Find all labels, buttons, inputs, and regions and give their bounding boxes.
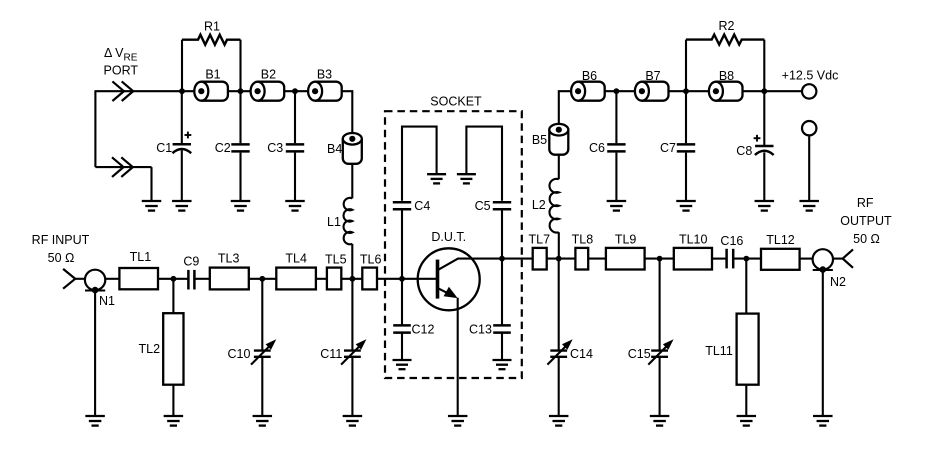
svg-text:C14: C14 <box>570 347 593 361</box>
connector N1 <box>85 270 105 290</box>
svg-text:C9: C9 <box>183 254 199 268</box>
transmission line TL8 <box>575 248 588 270</box>
ferrite bead B7 <box>642 82 669 101</box>
wire: C10 to ground <box>261 357 263 415</box>
transmission line TL3 <box>210 268 249 290</box>
wire: TL5 to TL6 <box>341 278 362 280</box>
wire: B5 riser and corner to B6 <box>559 91 571 124</box>
ground (N1) <box>85 415 105 417</box>
capacitor C8 wire upper <box>763 91 765 145</box>
wire: R1 left leg <box>181 40 183 91</box>
svg-text:C2: C2 <box>215 141 231 155</box>
svg-text:TL1: TL1 <box>130 250 152 264</box>
transmission line TL4 <box>276 268 316 290</box>
wire: TL2 to ground <box>172 385 174 415</box>
inductor L1 <box>344 198 353 244</box>
wire: TL1 to C9 <box>158 278 188 280</box>
wire: TL8 to TL9 <box>588 258 606 260</box>
svg-text:TL6: TL6 <box>360 253 382 267</box>
ground (C10) <box>253 415 272 417</box>
capacitor C2 <box>231 143 249 146</box>
svg-text:R2: R2 <box>719 19 735 33</box>
capacitor C3 wire lower <box>294 153 296 200</box>
svg-text:OUTPUT: OUTPUT <box>840 214 892 228</box>
ferrite bead B4 (vertical) <box>343 139 362 164</box>
ground (socket left) <box>427 173 446 175</box>
node K (L1/C11 junction) <box>350 276 356 282</box>
transmission line TL10 <box>674 248 712 270</box>
capacitor C8 (polarized) <box>755 145 773 148</box>
ground (C6) <box>607 200 627 202</box>
svg-text:RF INPUT: RF INPUT <box>32 233 90 247</box>
ferrite bead B5 (vertical) <box>549 130 568 155</box>
svg-text:C11: C11 <box>320 347 342 361</box>
terminal +12.5 Vdc <box>802 84 816 98</box>
transmission line TL6 <box>362 268 377 290</box>
node L (L2/C14 junction) <box>556 256 562 262</box>
wire: N1 to TL1 <box>105 278 119 280</box>
capacitor C6 <box>607 143 625 146</box>
node I (TL2 junction) <box>171 276 177 282</box>
wire: R2 left leg <box>685 40 687 92</box>
svg-text:B6: B6 <box>582 69 597 83</box>
wire: N2 shield to ground <box>822 270 824 415</box>
wire: ground post drop <box>808 136 810 201</box>
transistor D.U.T. circle <box>418 248 480 310</box>
variable capacitor C10 <box>254 349 271 351</box>
ground (supply return) <box>799 200 819 202</box>
capacitor C7 <box>677 143 695 146</box>
svg-text:R1: R1 <box>204 20 220 34</box>
svg-text:50 Ω: 50 Ω <box>853 232 880 246</box>
ground (C8) <box>755 200 775 202</box>
capacitor C9 (series) <box>187 270 190 290</box>
wire: chevron to N1 <box>75 278 85 280</box>
svg-text:TL5: TL5 <box>325 253 347 267</box>
transistor emitter arrowhead <box>444 287 458 298</box>
wire B7-B8 <box>669 90 709 92</box>
node B (R1/C2 junction) <box>238 88 244 94</box>
ground (C3) <box>285 200 305 202</box>
wire: C12 to ground <box>401 333 403 360</box>
wire: C13 to ground <box>501 333 503 360</box>
wire: TL11 to ground <box>745 385 747 415</box>
C8 plus sign <box>754 137 761 139</box>
capacitor C3 <box>286 143 304 146</box>
svg-text:L1: L1 <box>327 215 341 229</box>
svg-text:C5: C5 <box>475 199 491 213</box>
wire B2-B3 <box>284 90 308 92</box>
wire B6-B7 <box>605 90 635 92</box>
svg-text:L2: L2 <box>532 198 546 212</box>
wire B8 to supply terminal <box>743 90 802 92</box>
variable capacitor C14 <box>550 349 567 351</box>
ground (socket right) <box>457 173 476 175</box>
C1 plus sign <box>185 134 192 136</box>
transmission line TL1 <box>119 268 158 289</box>
capacitor C7 wire lower <box>685 153 687 200</box>
transmission line TL12 <box>761 249 800 270</box>
capacitor C5 <box>493 201 511 204</box>
wire: port left vertical <box>94 90 96 167</box>
svg-text:C8: C8 <box>736 144 752 158</box>
transistor base bar <box>436 260 440 299</box>
ground (C13) <box>493 359 512 361</box>
svg-text:TL10: TL10 <box>679 232 708 246</box>
transmission line TL5 <box>327 268 341 290</box>
svg-text:TL4: TL4 <box>285 251 307 265</box>
wire L1 to base line <box>351 244 353 279</box>
input port chevron <box>63 269 75 289</box>
connector N2 <box>813 249 833 269</box>
capacitor C4 <box>393 201 411 204</box>
svg-text:B2: B2 <box>261 67 276 81</box>
ground (C11) <box>343 415 363 417</box>
ferrite bead B3 <box>315 82 342 101</box>
wire: TL4 to TL5 <box>316 278 327 280</box>
terminal ground post <box>802 121 816 135</box>
svg-text:B8: B8 <box>719 69 734 83</box>
capacitor C13 <box>493 324 511 327</box>
wire: C15 to ground <box>659 357 661 415</box>
node F (R2 right / C8 junction) <box>761 88 767 94</box>
ground (C2) <box>231 200 251 202</box>
ground (C1) <box>172 200 192 202</box>
capacitor C1 wire upper <box>181 91 183 143</box>
ferrite bead B2 <box>258 82 285 101</box>
variable capacitor C11 <box>344 349 361 351</box>
node A (VRE/C1/R1 junction) <box>179 88 185 94</box>
ferrite bead B1 <box>201 82 228 101</box>
transistor emitter lead <box>439 289 449 294</box>
port symbol: top double chevron <box>112 81 124 101</box>
wire: C11 to ground <box>351 357 353 415</box>
transmission line TL11 (shunt stub) <box>737 314 759 385</box>
capacitor C6 wire lower <box>615 153 617 200</box>
ground (N2) <box>813 415 833 417</box>
node M (C15 junction) <box>657 256 663 262</box>
node E (R2 left / C7 junction) <box>683 88 689 94</box>
ground (C15) <box>650 415 670 417</box>
capacitor C8 wire lower <box>763 152 765 200</box>
wire: TL7 to TL8 <box>547 258 576 260</box>
wire: C5 top hook to ground <box>466 127 502 201</box>
ground (C12) <box>393 359 412 361</box>
svg-text:TL2: TL2 <box>139 342 161 356</box>
node N (TL11 junction) <box>743 256 749 262</box>
svg-text:50 Ω: 50 Ω <box>48 251 75 265</box>
port symbol: lower double chevron <box>112 157 124 177</box>
ground (TL2) <box>164 415 184 417</box>
svg-text:C10: C10 <box>228 347 251 361</box>
node C (C3 junction) <box>292 88 298 94</box>
svg-text:C12: C12 <box>412 323 435 337</box>
wire L2 to output line <box>558 232 560 258</box>
wire: N1 shield to ground <box>94 291 96 416</box>
resistor R1 <box>182 35 241 45</box>
wire: C10 riser <box>261 279 263 351</box>
svg-text:C6: C6 <box>589 141 605 155</box>
wire: R2 right leg <box>763 40 765 92</box>
svg-text:PORT: PORT <box>104 64 139 78</box>
capacitor C16 (series) <box>725 249 728 269</box>
svg-text:C15: C15 <box>628 347 651 361</box>
wire: TL11 riser <box>745 259 747 314</box>
capacitor C12 <box>393 324 411 327</box>
svg-text:+12.5 Vdc: +12.5 Vdc <box>782 69 839 83</box>
capacitor C6 wire upper <box>615 91 617 143</box>
wire: base lead <box>377 278 438 280</box>
transmission line TL9 <box>606 248 645 270</box>
svg-text:D.U.T.: D.U.T. <box>431 230 466 244</box>
wire: TL3 to TL4 <box>249 278 276 280</box>
capacitor C7 wire upper <box>685 91 687 143</box>
wire: C4 to base node to C12 <box>401 210 403 325</box>
capacitor C1 wire lower <box>181 150 183 200</box>
output port chevron <box>843 249 853 267</box>
wire B4-L1 <box>351 164 353 199</box>
wire: C5 to collector node to C13 <box>501 210 503 325</box>
node/wire: delta-VRE top wire <box>95 90 194 92</box>
wire: C14 riser <box>558 259 560 351</box>
wire: port lower drop to ground <box>150 167 152 201</box>
wire: TL2 riser <box>172 279 174 313</box>
svg-text:N1: N1 <box>99 294 115 308</box>
svg-text:TL7: TL7 <box>529 232 551 246</box>
ground (port return) <box>142 200 162 202</box>
socket dashed outline <box>385 111 522 378</box>
svg-text:B3: B3 <box>317 67 332 81</box>
variable capacitor C15 <box>651 349 668 351</box>
node G (base junction) <box>399 276 405 282</box>
node D (C6 junction) <box>614 88 620 94</box>
transmission line TL2 (shunt stub) <box>163 313 183 385</box>
svg-text:B7: B7 <box>645 69 660 83</box>
wire: C9 to TL3 <box>195 278 210 280</box>
capacitor C2 wire upper <box>239 91 241 143</box>
wire: emitter drop to ground <box>457 298 459 415</box>
svg-text:C13: C13 <box>469 323 492 337</box>
wire: N2 to output chevron <box>833 258 843 260</box>
svg-text:B5: B5 <box>532 133 547 147</box>
svg-text:TL11: TL11 <box>705 344 733 358</box>
resistor R2 <box>686 35 764 45</box>
wire: TL12 to N2 <box>800 258 813 260</box>
ground (TL11) <box>737 415 757 417</box>
wire B3 to B4 corner <box>342 91 352 133</box>
transmission line TL7 <box>533 248 547 270</box>
svg-text:C4: C4 <box>414 199 430 213</box>
svg-text:TL3: TL3 <box>218 251 240 265</box>
wire B5-L2 <box>558 155 560 179</box>
capacitor C2 wire lower <box>239 153 241 200</box>
ground (C14) <box>549 415 569 417</box>
svg-text:N2: N2 <box>830 275 846 289</box>
wire: R1 right leg <box>239 40 241 91</box>
svg-text:B1: B1 <box>205 67 220 81</box>
svg-text:TL12: TL12 <box>766 233 795 247</box>
transistor collector lead <box>439 259 533 270</box>
svg-text:TL9: TL9 <box>615 232 637 246</box>
ground (emitter) <box>448 415 468 417</box>
svg-text:B4: B4 <box>327 142 342 156</box>
ferrite bead B8 <box>716 82 743 101</box>
wire B1-B2 <box>228 90 251 92</box>
ferrite bead B6 <box>578 82 605 101</box>
wire: TL10 to C16 <box>712 258 726 260</box>
wire: port lower horizontal <box>95 166 151 168</box>
node J (C10 junction) <box>259 276 265 282</box>
svg-text:SOCKET: SOCKET <box>430 94 482 108</box>
node H (collector junction) <box>499 256 505 262</box>
wire: C15 riser <box>659 259 661 351</box>
wire: C4 top hook to ground <box>402 127 437 201</box>
ground (C7) <box>676 200 696 202</box>
svg-text:C16: C16 <box>720 234 743 248</box>
svg-text:C3: C3 <box>267 141 283 155</box>
wire: C14 to ground <box>558 357 560 415</box>
svg-text:C7: C7 <box>660 141 676 155</box>
svg-text:RF: RF <box>857 196 874 210</box>
wire: C16 to TL12 <box>733 258 761 260</box>
inductor L2 <box>549 179 558 233</box>
wire: C11 riser <box>351 279 353 351</box>
capacitor C3 wire upper <box>294 91 296 143</box>
wire: TL9 to TL10 <box>645 258 674 260</box>
capacitor C1 (polarized) <box>173 143 191 146</box>
svg-text:C1: C1 <box>156 141 172 155</box>
svg-text:TL8: TL8 <box>572 232 594 246</box>
